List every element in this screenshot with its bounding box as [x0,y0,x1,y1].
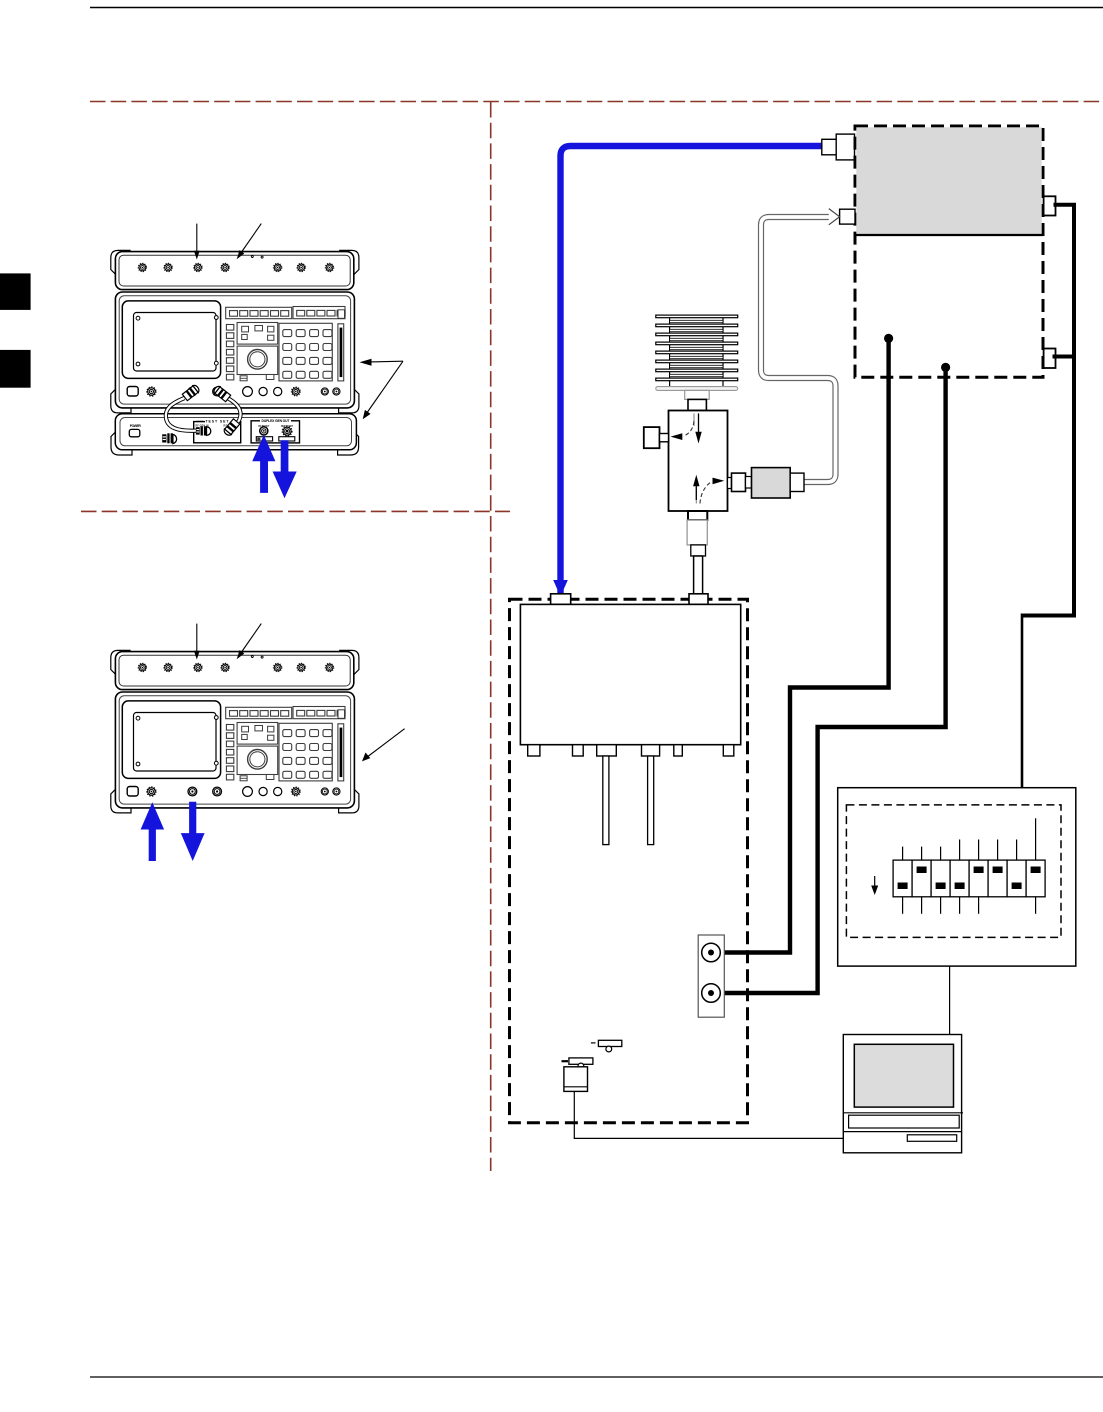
arrows inside wattmeter: top [693,413,695,426]
jumper cable right loop [225,397,241,424]
speaker/mic connector A [591,1040,622,1052]
right connector upper [1044,196,1056,215]
mic box [564,1067,588,1092]
duplex BNC right [282,426,292,436]
cable plug on BNC 4 of bottom row [212,385,230,402]
unit under test dashed box (top right) [855,126,1043,377]
analyzer chassis U1 [111,250,359,413]
line from switch box to computer [949,966,951,1034]
radio rf connector (wattmeter stem target) [689,594,708,605]
thick black cable 1: dot A to plate top jack [711,338,889,952]
speaker/mic connector B [562,1058,593,1069]
attenuator body [752,468,791,498]
callout arrow to 3rd BNC [196,224,198,253]
thick black cable 2: dot B to plate bottom jack [711,367,946,993]
black cable 3 lower drop into switch box [1021,614,1024,789]
radio dashed enclosure [510,599,748,1122]
blue arrow up (RF in) [252,435,275,493]
striped connector in TEST SET box [196,426,211,435]
radio rod 2 [648,756,654,845]
blue cable connector big rect [836,134,854,160]
wattmeter bottom port [688,511,707,520]
wattmeter right port small [728,478,732,489]
red dashed divider top [90,101,1103,103]
left small square connector (control cable) [840,209,855,224]
cable plug on BNC 3 of bottom row [182,384,200,401]
node dot B inside box [941,363,950,372]
small down arrow in switch box [874,876,876,890]
wattmeter left knob [644,427,660,448]
DUPLEX GEN OUT box [251,421,299,443]
test-set drawer ears [111,428,132,456]
attenuator right cap [790,473,804,491]
radio bottom tabs [528,745,734,756]
wattmeter body [669,411,728,512]
bottom connector barrel [687,520,707,545]
red dashed divider vertical [490,102,492,1171]
TEST SET box [194,422,241,443]
blue arrow up [141,802,165,861]
callout arrow diagonal to strip [241,224,262,254]
power button [129,429,140,436]
thumb tab 2 [0,350,31,388]
plate jack bottom [702,984,721,1003]
duplex label slots [256,437,272,441]
heatsink base plate [656,387,738,391]
bottom rule [90,1376,1103,1378]
top rule [90,7,1103,9]
blue cable arrowhead [553,580,568,597]
blue RF cable from analyzer antenna port to unit under test [561,146,823,594]
thin line from mic box to computer [574,1091,843,1138]
plate jack top [702,943,721,962]
angled plug into TEST SET box [223,419,240,437]
white cable open arrowhead [829,209,840,225]
grey upper half fill [856,127,1041,235]
svg-text:DUPLEX GEN OUT: DUPLEX GEN OUT [262,419,291,423]
drawer mini connector [162,433,176,443]
analyzer chassis U2 [111,650,359,813]
radio rod 1 [603,756,609,845]
black cable 3: upper right connector down to switch box [1022,205,1074,616]
2-jack plate [698,935,724,1017]
test-set drawer chassis [115,414,356,450]
computer [843,1035,961,1153]
heatsink neck lower [688,399,706,410]
white control cable from attenuator to unit under test [761,217,836,482]
inner dashed rect [846,805,1061,938]
blue cable connector small rect [822,139,836,155]
callout arrow to 3rd BNC [196,624,198,653]
svg-text:TEST SET: TEST SET [206,420,230,424]
thumb tab 1 [0,273,31,310]
radio antenna connector (blue target) [551,594,571,605]
right connector lower [1044,349,1056,369]
wattmeter right connector [732,473,746,491]
red dashed divider middle [81,510,510,512]
black cable 4: lower right connector stub [1053,355,1075,359]
computer screen [854,1044,953,1107]
blue arrow down (RF out) [273,440,297,498]
callout arrow diagonal to drawer [368,361,404,412]
computer lines [844,1112,963,1114]
blue arrow down [181,802,205,861]
DIP switch bank [893,818,1045,914]
arrows inside wattmeter: bottom [695,487,697,504]
callout arrow horizontal into right side [370,360,403,363]
dummy load heatsink fins [656,315,738,387]
heatsink neck upper [685,390,710,399]
radio body [520,604,740,744]
duplex BNC left [260,427,268,435]
jumper cable left loop [166,398,196,431]
callout arrow into right side [367,729,405,758]
knob stem [660,434,669,442]
divider solid line [855,234,1043,236]
callout arrow diagonal to strip [241,624,262,654]
switch interface box [838,788,1076,966]
attenuator left cap [746,477,752,489]
bottom connector tip [691,545,706,556]
svg-text:POWER: POWER [130,424,142,428]
node dot A inside box [884,334,893,343]
stem to radio connector [694,556,703,594]
